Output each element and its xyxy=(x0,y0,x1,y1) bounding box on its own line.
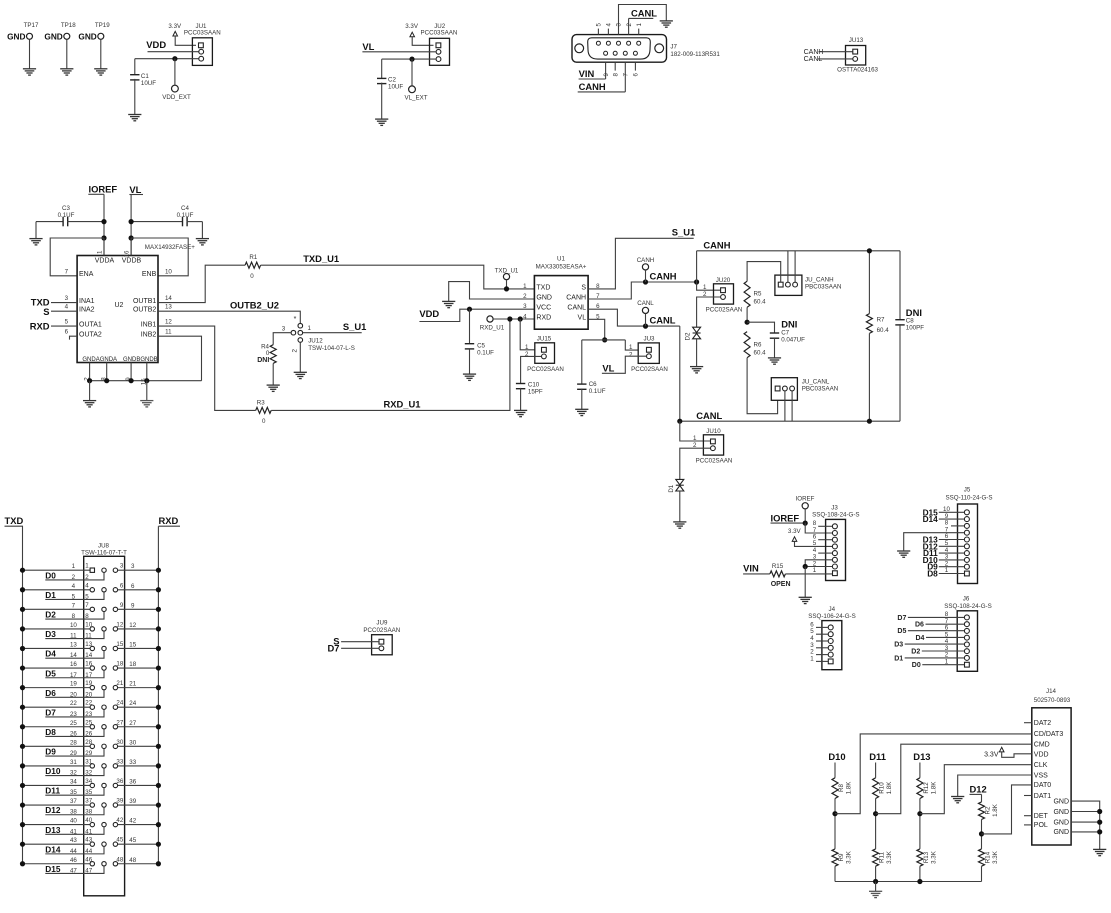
svg-text:D11: D11 xyxy=(45,786,60,796)
wire GND 4 xyxy=(1071,831,1100,833)
svg-text:OUTA2: OUTA2 xyxy=(79,332,102,339)
connector J14 xyxy=(1032,688,1071,845)
svg-text:SSQ-108-24-G-S: SSQ-108-24-G-S xyxy=(944,603,991,610)
wire GNDB pin 9 xyxy=(130,363,132,381)
JU8 row D13 (pins 40,41,42) xyxy=(20,817,161,835)
U1 pin numbers xyxy=(523,283,600,320)
svg-text:POL: POL xyxy=(1034,822,1048,829)
node D2 at J6 xyxy=(911,649,964,656)
svg-text:C10: C10 xyxy=(528,382,540,389)
capacitor C8 xyxy=(895,251,924,421)
junction xyxy=(803,521,808,526)
svg-text:CMD: CMD xyxy=(1034,742,1050,749)
svg-text:4: 4 xyxy=(85,582,89,589)
wire VL to JU2 pin 2 xyxy=(362,51,435,53)
resistor R3 xyxy=(256,399,272,425)
J5 pin 8 stub xyxy=(951,525,964,527)
svg-text:D2: D2 xyxy=(685,332,692,340)
svg-text:27: 27 xyxy=(116,719,123,726)
JU8 row D10 (pins 31,32,33) xyxy=(20,758,161,776)
svg-text:INA1: INA1 xyxy=(79,298,95,305)
svg-text:24: 24 xyxy=(129,700,136,707)
node VL xyxy=(362,41,374,52)
svg-text:40: 40 xyxy=(85,817,92,824)
svg-text:6: 6 xyxy=(120,582,124,589)
svg-text:C7: C7 xyxy=(781,329,789,336)
svg-text:R13: R13 xyxy=(923,851,930,863)
svg-text:0.1UF: 0.1UF xyxy=(477,349,494,356)
svg-text:IOREF: IOREF xyxy=(771,512,800,523)
svg-text:502570-0893: 502570-0893 xyxy=(1034,697,1071,704)
junction xyxy=(694,279,699,284)
svg-text:VDDA: VDDA xyxy=(95,257,115,264)
svg-text:D11: D11 xyxy=(869,751,886,762)
ground xyxy=(514,410,527,416)
svg-text:OUTB2: OUTB2 xyxy=(133,307,156,314)
capacitor C7 xyxy=(747,319,805,358)
wire JU10 pin 1 xyxy=(680,421,710,441)
wire C2 node to JU2 pin 3 xyxy=(382,58,436,60)
svg-text:VL: VL xyxy=(362,41,374,52)
node D4 at J6 xyxy=(916,635,965,642)
svg-text:2: 2 xyxy=(72,574,76,581)
test point IOREF xyxy=(796,495,815,523)
svg-text:D5: D5 xyxy=(45,668,56,678)
svg-text:D3: D3 xyxy=(45,629,56,639)
net label TXD_U1 xyxy=(303,253,339,264)
svg-text:3.3K: 3.3K xyxy=(846,850,853,864)
test point RXD_U1 xyxy=(480,316,505,332)
ground xyxy=(83,381,96,407)
svg-text:182-009-113R531: 182-009-113R531 xyxy=(670,51,720,58)
J14 stub pins xyxy=(1024,723,1032,825)
junction xyxy=(101,235,106,240)
svg-text:3.3V: 3.3V xyxy=(168,23,182,30)
svg-text:29: 29 xyxy=(70,750,77,757)
svg-text:MAX33053EASA+: MAX33053EASA+ xyxy=(536,263,587,270)
svg-text:43: 43 xyxy=(85,837,92,844)
node VIN xyxy=(579,62,606,79)
svg-text:60.4: 60.4 xyxy=(877,327,890,334)
wire R8 to R9 xyxy=(834,799,836,849)
resistor R12 xyxy=(917,778,938,799)
wire VDD to JU1 pin 2 xyxy=(148,51,199,53)
svg-text:44: 44 xyxy=(70,848,77,855)
svg-text:48: 48 xyxy=(116,856,123,863)
svg-text:6: 6 xyxy=(633,73,640,77)
junction xyxy=(979,831,984,836)
svg-text:C5: C5 xyxy=(477,342,485,349)
header JU8 xyxy=(81,542,127,896)
svg-text:SSQ-106-24-G-S: SSQ-106-24-G-S xyxy=(808,613,855,620)
svg-text:1: 1 xyxy=(72,563,76,570)
svg-text:20: 20 xyxy=(85,691,92,698)
junction xyxy=(101,219,106,224)
node CANL mid xyxy=(650,315,676,326)
svg-text:26: 26 xyxy=(85,730,92,737)
svg-text:1: 1 xyxy=(523,283,527,290)
svg-text:27: 27 xyxy=(129,720,136,727)
svg-text:R9: R9 xyxy=(838,853,845,861)
svg-text:CANL: CANL xyxy=(804,56,823,63)
ground xyxy=(799,597,812,603)
wire CANH pin xyxy=(588,282,697,299)
ground xyxy=(690,367,703,373)
node D10 xyxy=(828,751,845,762)
wire JU15 pin 2 to C10 xyxy=(521,356,542,383)
wire GNDA pin 2 xyxy=(89,363,91,381)
svg-text:SSQ-110-24-G-S: SSQ-110-24-G-S xyxy=(946,494,993,501)
svg-text:3: 3 xyxy=(616,23,623,27)
svg-text:1: 1 xyxy=(85,563,89,570)
junction xyxy=(602,337,607,342)
wire S pin to S_U1 xyxy=(588,238,694,289)
svg-text:VIN: VIN xyxy=(579,68,595,79)
svg-text:GNDBGNDB: GNDBGNDB xyxy=(123,357,158,363)
svg-text:39: 39 xyxy=(129,798,136,805)
junction xyxy=(129,219,134,224)
svg-text:8: 8 xyxy=(612,73,619,77)
node D12 xyxy=(923,541,965,551)
svg-text:JU12: JU12 xyxy=(308,338,323,345)
svg-text:JU13: JU13 xyxy=(849,37,864,44)
jumper JU10 xyxy=(693,428,732,465)
node CANL bus xyxy=(696,410,722,421)
svg-text:15PF: 15PF xyxy=(528,389,543,396)
test point TP19 xyxy=(78,22,110,75)
wire VSS to ground xyxy=(958,775,1032,796)
wire D13 to R12 xyxy=(919,763,921,778)
junction xyxy=(172,56,177,61)
svg-text:24: 24 xyxy=(116,700,123,707)
svg-text:0.047UF: 0.047UF xyxy=(781,336,805,343)
node D11 xyxy=(923,548,964,558)
JU8 row D0 (pins 1,2,3) xyxy=(20,563,161,581)
svg-text:3: 3 xyxy=(523,303,527,310)
wire D2 to ground xyxy=(696,339,698,367)
svg-text:35: 35 xyxy=(70,789,77,796)
wire R10 to R11 xyxy=(875,799,877,849)
svg-text:3: 3 xyxy=(131,563,135,570)
resistor R10 xyxy=(873,778,894,799)
node CANL at JU13 xyxy=(804,56,853,63)
svg-text:J14: J14 xyxy=(1046,688,1057,695)
svg-text:43: 43 xyxy=(70,837,77,844)
svg-text:15: 15 xyxy=(129,641,136,648)
svg-text:1: 1 xyxy=(810,655,814,662)
wire J3 pin 3 xyxy=(805,560,832,567)
svg-text:2: 2 xyxy=(85,574,89,581)
wire R14 to bus xyxy=(981,866,983,881)
svg-text:17: 17 xyxy=(85,672,92,679)
svg-text:10UF: 10UF xyxy=(141,80,156,87)
resistor R15 xyxy=(770,563,791,588)
svg-text:D0: D0 xyxy=(45,570,56,580)
svg-text:26: 26 xyxy=(70,730,77,737)
svg-text:D13: D13 xyxy=(913,751,930,762)
wire ENB elbow xyxy=(131,238,188,276)
svg-text:1: 1 xyxy=(813,567,817,574)
svg-text:GND: GND xyxy=(1053,829,1069,836)
jumper JU3 xyxy=(629,335,668,373)
wire VL vertical xyxy=(130,195,132,256)
svg-text:RXD: RXD xyxy=(159,515,179,526)
svg-text:C1: C1 xyxy=(141,73,149,80)
node D10 xyxy=(923,555,965,565)
jumper JU13 xyxy=(837,37,878,74)
U2 part number MAX14932FASE+ xyxy=(145,244,195,251)
test point CANL xyxy=(637,300,654,326)
svg-text:CANL: CANL xyxy=(567,305,586,312)
svg-text:31: 31 xyxy=(70,759,77,766)
svg-text:MAX14932FASE+: MAX14932FASE+ xyxy=(145,244,195,251)
test point TP17 xyxy=(7,22,39,75)
JU8 row D1 (pins 4,5,6) xyxy=(20,582,161,600)
node D7 at JU9 xyxy=(328,643,379,654)
svg-text:45: 45 xyxy=(116,837,123,844)
svg-text:42: 42 xyxy=(129,818,136,825)
svg-text:C2: C2 xyxy=(388,77,396,84)
IC U2 xyxy=(77,256,158,364)
svg-text:RXD_U1: RXD_U1 xyxy=(480,325,505,332)
wire VDDA pin xyxy=(103,238,105,256)
ground xyxy=(575,409,588,415)
wire RXD bus vertical xyxy=(157,526,159,864)
svg-text:VDD_EXT: VDD_EXT xyxy=(162,94,191,101)
JU8 row D2 (pins 7,8,9) xyxy=(20,602,161,620)
svg-text:GND: GND xyxy=(1053,798,1069,805)
svg-text:GND: GND xyxy=(536,294,552,301)
capacitor C1 xyxy=(130,59,156,115)
wire CANH bus xyxy=(697,250,900,252)
wire OUTB1 to R1 xyxy=(158,265,245,302)
svg-text:25: 25 xyxy=(85,719,92,726)
svg-text:10: 10 xyxy=(85,621,92,628)
wire D12 to R2 xyxy=(981,794,983,802)
junction xyxy=(745,320,750,325)
svg-text:41: 41 xyxy=(85,828,92,835)
resistor R2 xyxy=(979,802,1000,820)
svg-text:R8: R8 xyxy=(838,783,845,791)
ground xyxy=(951,797,964,803)
header JU_CANH xyxy=(775,275,842,295)
power arrow 3.3V xyxy=(405,23,433,46)
JU8 row D7 (pins 22,23,24) xyxy=(20,700,161,718)
svg-text:10: 10 xyxy=(70,622,77,629)
svg-text:3: 3 xyxy=(120,563,124,570)
junction xyxy=(873,811,878,816)
ground xyxy=(29,222,42,245)
jumper JU1 xyxy=(184,23,221,66)
svg-text:0.1UF: 0.1UF xyxy=(589,388,606,395)
wire IOREF to J3 pin 7 xyxy=(805,523,832,533)
node D5 at J6 xyxy=(897,628,964,635)
svg-text:5: 5 xyxy=(72,593,76,600)
resistor R5 xyxy=(744,281,766,307)
node D7 at J6 xyxy=(897,615,964,622)
svg-text:10UF: 10UF xyxy=(388,84,403,91)
svg-text:100PF: 100PF xyxy=(906,325,924,332)
JU8 row D6 (pins 19,20,21) xyxy=(20,680,161,698)
resistor R9 xyxy=(832,849,853,866)
wire GND 2 xyxy=(1071,811,1100,813)
svg-text:ENA: ENA xyxy=(79,271,94,278)
node D3 at J6 xyxy=(894,642,964,649)
node VL at JU3 xyxy=(602,363,614,374)
svg-text:VDD: VDD xyxy=(146,39,166,50)
svg-text:19: 19 xyxy=(70,681,77,688)
svg-text:R11: R11 xyxy=(879,852,886,863)
ground xyxy=(196,222,209,245)
svg-text:TXD: TXD xyxy=(536,284,550,291)
svg-text:25: 25 xyxy=(70,720,77,727)
svg-text:1: 1 xyxy=(97,250,104,254)
svg-text:INB1: INB1 xyxy=(141,321,157,328)
node CANL xyxy=(629,8,658,35)
svg-text:4: 4 xyxy=(523,313,527,320)
svg-text:1.8K: 1.8K xyxy=(992,803,999,817)
JU8 row D3 (pins 10,11,12) xyxy=(20,621,161,639)
svg-text:S_U1: S_U1 xyxy=(343,321,366,332)
junction xyxy=(643,279,648,284)
svg-text:48: 48 xyxy=(129,857,136,864)
wire JU_CANH pin 1 to R5 xyxy=(747,262,781,283)
svg-text:OUTB1: OUTB1 xyxy=(133,298,156,305)
svg-text:44: 44 xyxy=(85,848,92,855)
svg-text:D4: D4 xyxy=(916,635,925,642)
node S at JU9 xyxy=(333,636,379,647)
wire R9 to bus xyxy=(834,866,836,881)
svg-text:D10: D10 xyxy=(828,751,845,762)
wire INB1 to R3 xyxy=(158,326,256,410)
svg-text:13: 13 xyxy=(165,304,172,311)
svg-text:5: 5 xyxy=(85,593,89,600)
svg-text:11: 11 xyxy=(70,633,77,640)
svg-text:9: 9 xyxy=(603,73,610,77)
svg-text:20: 20 xyxy=(70,691,77,698)
svg-text:TXD_U1: TXD_U1 xyxy=(303,253,339,264)
svg-text:4: 4 xyxy=(606,23,613,27)
svg-text:12: 12 xyxy=(165,319,172,326)
wire RXD_U1 xyxy=(271,319,510,410)
wire J3 ground xyxy=(804,567,806,598)
svg-text:CANL: CANL xyxy=(696,410,722,421)
wire INB2 to ground bus xyxy=(158,336,202,381)
svg-text:OUTA1: OUTA1 xyxy=(79,321,102,328)
wire JU_CANL pin 2 to bus xyxy=(784,391,786,421)
svg-text:CANH: CANH xyxy=(637,257,655,264)
test point VL_EXT xyxy=(404,59,427,101)
svg-text:CANH: CANH xyxy=(650,271,677,282)
svg-text:8: 8 xyxy=(85,613,89,620)
svg-text:5: 5 xyxy=(596,23,603,27)
ground xyxy=(869,891,882,897)
svg-text:16: 16 xyxy=(85,661,92,668)
wire VL pin xyxy=(588,319,605,340)
U2 pin numbers xyxy=(65,250,173,385)
wire JU_CANH pin 2 to bus xyxy=(787,251,789,282)
svg-text:12: 12 xyxy=(116,621,123,628)
wire R5 to R6 xyxy=(746,307,748,322)
svg-text:RXD: RXD xyxy=(30,320,50,331)
svg-text:DNI: DNI xyxy=(781,319,797,330)
power arrow 3.3V at J3 xyxy=(788,528,832,546)
svg-text:17: 17 xyxy=(70,672,77,679)
svg-text:33: 33 xyxy=(129,759,136,766)
svg-text:31: 31 xyxy=(85,758,92,765)
svg-text:D3: D3 xyxy=(894,642,903,649)
svg-text:D6: D6 xyxy=(915,622,924,629)
svg-text:3: 3 xyxy=(282,326,286,333)
node IOREF at J3 xyxy=(771,512,806,523)
svg-text:JU9: JU9 xyxy=(376,619,388,626)
wire GND 1 xyxy=(1071,801,1100,849)
svg-text:0: 0 xyxy=(250,273,254,280)
svg-text:14: 14 xyxy=(70,652,77,659)
svg-text:U2: U2 xyxy=(115,302,124,309)
wire GND pin to ground xyxy=(449,282,535,302)
wire JU3 pin 2 to VL xyxy=(602,356,646,373)
wire RXD pin xyxy=(493,318,534,320)
svg-text:1.8K: 1.8K xyxy=(846,781,853,795)
svg-text:VIN: VIN xyxy=(743,563,759,574)
svg-text:J4: J4 xyxy=(829,606,836,613)
svg-text:CLK: CLK xyxy=(1034,762,1048,769)
svg-text:PBC03SAAN: PBC03SAAN xyxy=(805,284,841,291)
wire OUTB2 to JU12 xyxy=(158,311,300,323)
svg-text:21: 21 xyxy=(129,681,136,688)
capacitor C4 xyxy=(131,205,202,226)
junction xyxy=(409,57,414,62)
wire JU12 pin 2 to ground xyxy=(299,342,301,372)
node TXD bus xyxy=(5,515,24,526)
node D13 xyxy=(913,751,930,762)
svg-text:JU_CANH: JU_CANH xyxy=(805,276,834,283)
test point CANH xyxy=(637,257,655,282)
ground xyxy=(463,374,476,380)
svg-text:R12: R12 xyxy=(923,782,930,794)
svg-text:TP19: TP19 xyxy=(95,22,110,29)
svg-text:2: 2 xyxy=(525,351,529,358)
svg-text:13: 13 xyxy=(85,641,92,648)
svg-text:10: 10 xyxy=(165,268,172,275)
wire JU_CANL pin 3 to bus xyxy=(791,391,793,421)
junction xyxy=(504,286,509,291)
svg-text:JU3: JU3 xyxy=(643,335,655,342)
resistor R14 xyxy=(979,849,1000,866)
svg-text:IOREF: IOREF xyxy=(796,495,815,502)
svg-text:D2: D2 xyxy=(45,610,56,620)
wire TXD_U1 xyxy=(261,265,535,289)
node D1 at J6 xyxy=(894,655,964,662)
wire TXD to INA1 xyxy=(51,302,77,304)
ground xyxy=(128,115,141,121)
svg-text:DNI: DNI xyxy=(257,357,269,364)
svg-text:GND: GND xyxy=(78,32,96,42)
svg-text:36: 36 xyxy=(129,778,136,785)
svg-text:33: 33 xyxy=(116,758,123,765)
svg-text:1.8K: 1.8K xyxy=(930,781,937,795)
svg-text:D6: D6 xyxy=(45,688,56,698)
svg-text:39: 39 xyxy=(116,798,123,805)
svg-text:S_U1: S_U1 xyxy=(672,226,695,237)
junction xyxy=(87,378,149,383)
svg-text:C4: C4 xyxy=(181,205,189,212)
wire R6 to JU_CANL pin 1 xyxy=(747,358,778,414)
svg-text:45: 45 xyxy=(129,837,136,844)
wire RXD to JU15 pin 1 xyxy=(520,319,535,350)
wire CD/DAT3 xyxy=(835,734,1032,814)
